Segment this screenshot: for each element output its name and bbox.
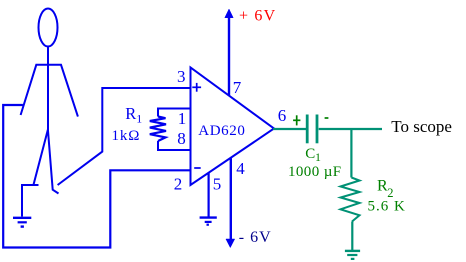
svg-text:C: C (305, 146, 315, 162)
svg-text:4: 4 (236, 159, 245, 178)
person: body (47, 47, 49, 131)
svg-text:1: 1 (136, 112, 142, 126)
wire: pin 3 to right-foot electrode (58, 88, 191, 185)
svg-text:1000 µF: 1000 µF (288, 164, 342, 180)
resistor R2 zigzag (341, 178, 360, 222)
svg-text:5.6 K: 5.6 K (368, 198, 406, 214)
svg-text:7: 7 (233, 78, 242, 97)
op-amp inverting - symbol (194, 167, 201, 169)
capacitor + polarity mark (293, 115, 300, 125)
-6V supply arrow (226, 239, 235, 248)
person: head (39, 9, 58, 47)
svg-text:1: 1 (315, 150, 321, 164)
svg-text:R: R (125, 104, 136, 123)
svg-text:- 6V: - 6V (239, 229, 272, 246)
capacitor C1 plates (306, 115, 309, 144)
svg-text:3: 3 (177, 67, 186, 86)
node: junction to R2 (350, 129, 352, 178)
svg-text:1: 1 (178, 109, 187, 128)
svg-text:AD620: AD620 (198, 123, 245, 139)
resistor R1 zigzag (150, 117, 166, 142)
svg-text:8: 8 (177, 129, 186, 148)
wire: capacitor to scope (319, 128, 382, 130)
wire: pin 4 to -6V (230, 158, 232, 240)
person: left leg (34, 130, 48, 185)
svg-text:6: 6 (278, 106, 287, 125)
resistor R1 bracket wires pins 1-8 (158, 109, 191, 117)
svg-text:5: 5 (213, 175, 222, 194)
op-amp U1 AD620 triangle (191, 68, 275, 186)
capacitor - polarity mark (325, 117, 329, 119)
wire: pin 2 to left-hand electrode (3, 105, 190, 248)
svg-text:2: 2 (174, 175, 183, 194)
wire: R2 to ground (351, 222, 353, 251)
+6V supply arrow (225, 9, 233, 18)
wire: pin 5 to ground (208, 173, 210, 217)
person: arms (21, 65, 78, 117)
svg-text:1kΩ: 1kΩ (112, 128, 141, 144)
ground symbol at person (13, 218, 31, 227)
op-amp noninverting + symbol (192, 83, 201, 92)
wire: left foot to ground (22, 185, 39, 217)
wire: pin 6 output to capacitor (273, 128, 306, 130)
svg-text:+ 6V: + 6V (239, 8, 276, 25)
person: right leg (48, 130, 59, 194)
ground symbol at R2 (345, 251, 360, 259)
svg-text:To scope: To scope (391, 117, 452, 136)
wire: pin 7 to +6V (228, 17, 230, 96)
ground symbol at pin 5 (200, 218, 217, 225)
